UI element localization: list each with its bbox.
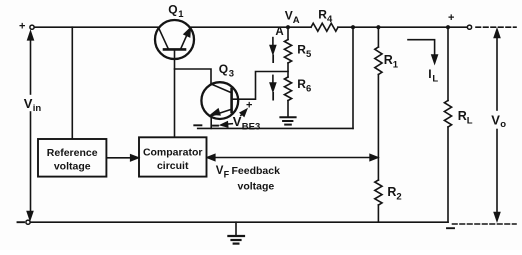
wire top rail to R1: [377, 27, 379, 47]
resistor R5: [284, 40, 291, 64]
input terminal (top left, open circle): [30, 25, 34, 29]
svg-text:6: 6: [306, 84, 311, 95]
node dot (R4 right / current sense): [351, 25, 355, 29]
label VF Feedback: [216, 165, 280, 180]
label R5: [297, 43, 312, 61]
svg-text:voltage: voltage: [238, 181, 275, 193]
node VA dot: [286, 25, 290, 29]
plus sign (output +): [448, 12, 454, 24]
svg-text:Feedback: Feedback: [232, 165, 281, 177]
svg-text:5: 5: [306, 49, 312, 60]
wire Q1 base to comparator: [174, 51, 176, 138]
svg-text:A: A: [293, 15, 300, 26]
svg-text:R: R: [387, 185, 396, 199]
comparator circuit box: [139, 137, 207, 176]
pointer arrow VBE3 to - (emitter): [221, 122, 232, 127]
label IL: [428, 67, 438, 85]
wire VA to R5: [287, 27, 289, 39]
svg-text:Q: Q: [219, 62, 228, 76]
wire R4 output down to VBE3 wire: [352, 27, 354, 128]
svg-text:4: 4: [327, 14, 333, 25]
label Reference voltage: [47, 147, 98, 173]
svg-text:+: +: [448, 12, 454, 24]
label VA: [285, 9, 300, 27]
svg-text:1: 1: [178, 9, 184, 20]
minus dash (emitter side): [194, 124, 201, 126]
svg-text:L: L: [432, 74, 438, 85]
minus sign (output -): [447, 227, 454, 229]
wire RL to bottom rail: [447, 127, 449, 222]
svg-text:V: V: [491, 113, 500, 128]
wire R6 to ground: [287, 101, 289, 118]
wire Q1 base to Q3 collector: [175, 69, 212, 84]
Vin measurement arrow: [27, 32, 33, 220]
svg-text:in: in: [33, 103, 42, 114]
svg-text:Q: Q: [168, 3, 177, 17]
svg-text:+: +: [19, 20, 25, 32]
label VBE3: [233, 114, 260, 133]
svg-text:circuit: circuit: [157, 160, 189, 172]
label I (R5 current): [272, 52, 275, 66]
output terminal (open circle): [467, 25, 471, 29]
svg-text:Comparator: Comparator: [143, 147, 203, 159]
svg-text:BE3: BE3: [242, 122, 260, 133]
load current arrow IL: [408, 40, 437, 63]
svg-text:R: R: [384, 53, 393, 67]
ground (bottom rail): [228, 222, 244, 243]
label I (R6 current): [272, 90, 275, 104]
current arrow I (through R6): [270, 75, 275, 91]
resistor R6: [284, 77, 291, 101]
wire Q3 base to R5/R6 divider tap: [232, 72, 288, 100]
label R2: [387, 185, 401, 203]
node dot (output / RL top): [446, 25, 450, 29]
wire R1 to R2 (feedback tap): [377, 75, 379, 181]
input terminal (bottom left, open circle): [26, 220, 30, 224]
wire R2 to bottom rail: [377, 205, 379, 222]
label Q3: [219, 62, 234, 80]
ground (below R6): [280, 117, 295, 124]
node dot (R1 top): [376, 25, 380, 29]
Vo measurement arrow: [494, 30, 499, 221]
label Comparator circuit: [143, 147, 203, 173]
label voltage (feedback): [238, 181, 275, 193]
small dash (next to emitter lead): [213, 125, 218, 127]
svg-text:F: F: [224, 169, 230, 179]
dashed output lead (top): [476, 26, 516, 28]
svg-text:V: V: [285, 9, 293, 23]
wire Q3 emitter to R4 output (VBE3 sense wire): [198, 127, 353, 129]
resistor R2: [375, 180, 382, 205]
transistor Q1: [155, 20, 194, 59]
resistor RL: [444, 101, 451, 128]
wire output node to RL: [447, 27, 449, 100]
label R6: [297, 77, 311, 95]
svg-text:R: R: [297, 77, 306, 91]
svg-text:2: 2: [396, 192, 401, 203]
transistor Q3: [201, 82, 238, 119]
svg-text:A: A: [275, 26, 283, 38]
wire R5 to R6: [287, 63, 289, 77]
svg-text:V: V: [216, 165, 224, 177]
resistor R4: [311, 23, 338, 31]
svg-text:voltage: voltage: [54, 161, 91, 173]
wire input rail to Reference voltage box: [71, 27, 73, 139]
svg-text:I: I: [272, 52, 275, 66]
wire Q3 emitter down: [210, 116, 212, 129]
bottom rail wire: [30, 221, 448, 223]
arrow reference to comparator: [106, 155, 138, 161]
top rail wire (R4 to output terminal): [338, 26, 468, 28]
svg-text:3: 3: [229, 69, 234, 80]
label Q1: [168, 3, 184, 21]
label R4: [318, 8, 333, 26]
label Vo: [491, 113, 506, 131]
dashed output lead (bottom): [453, 223, 517, 225]
svg-text:o: o: [500, 119, 506, 130]
svg-text:I: I: [428, 67, 431, 81]
svg-text:R: R: [297, 43, 306, 57]
minus sign (input -): [18, 221, 25, 223]
svg-text:R: R: [318, 8, 327, 22]
label R1: [384, 53, 399, 71]
feedback wire (R1/R2 tap to comparator): [207, 155, 377, 161]
svg-text:I: I: [272, 90, 275, 104]
label Vin: [24, 96, 42, 114]
node label A: [275, 26, 283, 38]
pointer arrow VBE3 to +: [240, 110, 246, 117]
reference voltage box: [38, 139, 106, 177]
svg-text:Reference: Reference: [47, 147, 98, 159]
svg-text:L: L: [467, 116, 473, 127]
svg-text:R: R: [458, 109, 467, 123]
top rail wire (input + to VA / R4): [34, 26, 311, 28]
plus sign (input +): [19, 20, 25, 32]
label RL: [458, 109, 473, 127]
plus sign (Q3 base, VBE3 +): [246, 100, 252, 112]
resistor R1: [375, 47, 382, 75]
svg-text:1: 1: [393, 60, 399, 71]
current arrow I (through R5): [270, 38, 275, 54]
svg-text:V: V: [24, 96, 33, 111]
